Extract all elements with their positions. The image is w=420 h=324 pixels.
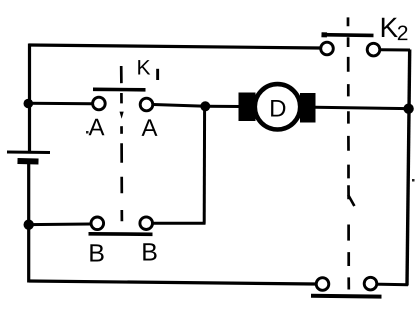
contact K2 bottom right circle <box>364 277 377 290</box>
svg-text:K: K <box>379 12 398 43</box>
wire center node to motor <box>205 105 240 108</box>
switch K1 contact bar B <box>89 232 153 236</box>
linkage K1 dashed line <box>120 66 123 221</box>
linkage K1 arrowhead <box>120 112 124 119</box>
wire right vertical <box>407 50 410 286</box>
node junction center <box>200 101 210 111</box>
speck artifact right <box>412 179 415 182</box>
switch K2 bar left end blob <box>322 32 328 37</box>
node junction right <box>403 104 413 114</box>
svg-text:A: A <box>141 115 157 142</box>
linkage K2 arrow tick <box>348 195 354 206</box>
wire K2 bottom right circle to right wire <box>377 283 408 287</box>
wire left lower <box>27 161 30 283</box>
wire motor to right wire <box>315 107 409 108</box>
wire top <box>29 45 320 48</box>
switch K2 contact bar top <box>322 33 374 37</box>
switch K1 contact bar A <box>93 88 146 92</box>
contact K2 bottom left circle <box>316 278 329 291</box>
wire left upper <box>28 44 31 153</box>
svg-text:B: B <box>141 238 158 266</box>
switch K2 contact bar bottom <box>311 294 382 299</box>
motor D right brush <box>300 93 316 123</box>
battery BT1 short plate <box>18 158 39 165</box>
wire K2 right circle to right wire <box>380 48 410 51</box>
contact B left circle <box>91 217 104 230</box>
label subscript 1 of K1 <box>156 69 159 80</box>
svg-text:A: A <box>88 114 104 141</box>
wire link to contact B right <box>153 222 206 225</box>
svg-text:2: 2 <box>397 22 409 45</box>
speck artifact left <box>86 131 89 134</box>
wire bottom <box>29 281 316 284</box>
contact K2 top right circle <box>367 43 380 56</box>
battery BT1 long plate <box>7 151 50 155</box>
contact K2 top left circle <box>321 42 334 55</box>
svg-text:K: K <box>136 57 150 80</box>
contact B right circle <box>140 217 153 230</box>
wire to contact A left <box>28 102 93 106</box>
node junction left-top <box>24 99 34 109</box>
svg-text:D: D <box>269 95 286 122</box>
contact A right circle <box>140 98 153 111</box>
node junction left-bottom <box>24 220 34 230</box>
wire contact A right to center node <box>153 105 206 107</box>
wire to contact B left <box>29 223 91 227</box>
svg-text:B: B <box>88 239 105 267</box>
linkage K2 dashed line <box>347 17 350 289</box>
wire vertical link center <box>203 106 206 223</box>
motor D left brush <box>239 93 256 122</box>
motor D body circle <box>255 84 300 129</box>
contact A left circle <box>93 97 106 110</box>
